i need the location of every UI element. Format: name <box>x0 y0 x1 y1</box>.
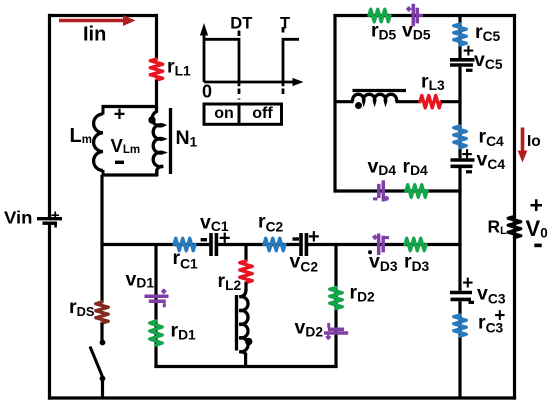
wire top-right <box>333 14 516 17</box>
svg-text:+: + <box>114 104 126 126</box>
wire rDS to switch <box>100 323 103 343</box>
waveform axes <box>200 23 304 86</box>
resistor rD4 <box>406 185 427 197</box>
source vD1 <box>145 289 169 308</box>
resistor rDS <box>96 302 108 323</box>
svg-text:Io: Io <box>527 133 541 150</box>
wire rD4 row <box>335 189 462 192</box>
dashed line at DT <box>238 31 241 100</box>
inductor Lm (magnetizing winding) <box>94 105 103 176</box>
resistor rD2 <box>330 288 342 309</box>
wire Lm to bus <box>100 175 103 246</box>
wire top-left <box>48 14 158 17</box>
wire right-mid vertical seg2 <box>458 67 461 158</box>
wire second-level <box>154 365 337 368</box>
resistor rD1 <box>150 321 162 345</box>
svg-text:T: T <box>280 15 290 33</box>
wire main bus (segment 2) <box>218 243 299 246</box>
source vD5 <box>406 4 423 26</box>
svg-text:+: + <box>462 273 473 294</box>
capacitor vC1 <box>211 233 216 256</box>
label - (vC1) <box>201 238 207 241</box>
waveform next pulse edge at T <box>283 39 299 86</box>
svg-text:on: on <box>214 105 234 122</box>
label - (vC2) <box>293 237 299 240</box>
capacitor vC2 <box>301 233 306 256</box>
core bar L3 <box>353 89 407 92</box>
resistor rC1 <box>174 238 195 250</box>
switch S <box>90 340 105 382</box>
wire right-mid vertical seg4 <box>458 301 461 399</box>
svg-text:Iin: Iin <box>83 24 106 46</box>
transformer core bar <box>169 108 172 174</box>
inductor L2 <box>239 283 248 369</box>
resistor rC4 <box>454 126 466 148</box>
svg-text:+: + <box>494 306 505 327</box>
svg-text:+: + <box>51 207 60 224</box>
source vD2 <box>324 323 348 340</box>
wire switch to bottom rail <box>101 379 104 400</box>
wire transformer bottom <box>102 173 159 176</box>
wire rD2/vD2 branch <box>334 245 337 369</box>
wire bottom rail <box>48 396 516 399</box>
polarity dot N1 <box>148 116 155 123</box>
resistor rD3 <box>405 238 426 250</box>
wire transformer top <box>102 105 159 108</box>
inductor L3 <box>335 94 420 101</box>
dashed line at T <box>282 27 285 99</box>
polarity dot L3 <box>355 102 362 109</box>
wire L2 branch upper <box>244 245 247 262</box>
wire main bus (segment 3) <box>308 243 462 246</box>
wire left rail upper (above Vin) <box>48 14 51 217</box>
svg-text:+: + <box>219 228 231 250</box>
resistor rL1 <box>150 15 162 110</box>
capacitor vC4 <box>451 160 475 166</box>
capacitor vC3 <box>450 293 472 300</box>
arrow Io <box>518 128 528 163</box>
svg-text:+: + <box>461 145 472 166</box>
source vD3 <box>373 234 390 256</box>
label - (vC3) <box>469 301 475 304</box>
label - (Lm polarity) <box>115 161 124 164</box>
svg-text:off: off <box>252 105 273 122</box>
resistor rC2 <box>264 238 285 250</box>
resistor rC5 <box>454 24 466 45</box>
svg-text:0: 0 <box>202 82 212 102</box>
on/off table <box>204 104 282 124</box>
wire right-mid vertical seg3 <box>458 168 461 291</box>
svg-text:+: + <box>529 192 542 218</box>
arrow Iin <box>59 15 136 26</box>
winding N1 (primary) <box>152 107 163 176</box>
label - (vC5) <box>466 69 473 72</box>
source vD4 <box>373 180 389 201</box>
resistor rD5 <box>369 9 390 21</box>
label - (V0) <box>534 244 541 248</box>
switch branch wire upper <box>100 245 103 303</box>
svg-text:+: + <box>463 41 474 62</box>
source Vin <box>37 207 62 228</box>
dot mark (vD3) <box>368 250 372 254</box>
waveform pulse <box>204 39 239 86</box>
svg-text:+: + <box>308 226 320 248</box>
resistor RL <box>508 217 520 238</box>
resistor rL3 <box>420 96 441 108</box>
wire upper-right left vertical <box>333 16 336 193</box>
wire far right vertical <box>513 14 516 400</box>
polarity dot L2 <box>245 338 252 345</box>
wire right-mid vertical seg1 <box>458 14 461 58</box>
wire main bus (segment 1) <box>102 243 209 246</box>
capacitor vC5 <box>450 60 475 65</box>
resistor rL2 <box>240 261 252 283</box>
wire vD1 branch <box>154 245 157 369</box>
svg-text:DT: DT <box>230 15 252 33</box>
core bar L2 <box>235 295 238 351</box>
label - (vC4) <box>466 170 472 173</box>
resistor rC3 <box>454 315 466 336</box>
wire left rail lower (below Vin) <box>48 225 51 400</box>
svg-text:Vin: Vin <box>4 208 33 228</box>
wire rL3 to right vertical <box>441 100 462 103</box>
